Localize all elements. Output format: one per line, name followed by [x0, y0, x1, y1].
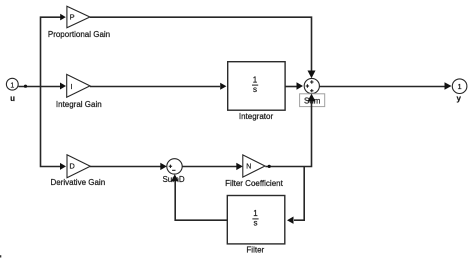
wire branch down to Filter input — [287, 167, 304, 224]
input port 1 (u) — [6, 78, 18, 90]
wire Integrator output to Sum left input — [285, 82, 303, 89]
wire branch up to Proportional Gain — [41, 14, 66, 87]
svg-text:Proportional Gain: Proportional Gain — [48, 30, 110, 39]
sum block Sum — [304, 78, 319, 93]
junction dot on u wire — [24, 85, 27, 88]
svg-text:N: N — [246, 163, 251, 170]
stray corner mark bottom-left — [0, 255, 1, 257]
svg-text:Derivative Gain: Derivative Gain — [50, 178, 105, 187]
svg-text:s: s — [253, 85, 257, 94]
gain block N (Filter Coefficient) — [243, 155, 265, 177]
wire D output to SumD left input — [90, 163, 167, 170]
wire branch down to Derivative Gain — [41, 87, 67, 170]
svg-text:Filter: Filter — [246, 245, 264, 254]
svg-text:Integral Gain: Integral Gain — [56, 100, 102, 109]
svg-text:Integrator: Integrator — [239, 112, 274, 121]
wire I output to Integrator — [90, 83, 227, 90]
wire P output to Sum top input — [90, 17, 316, 78]
svg-text:1: 1 — [10, 82, 14, 89]
wire SumD output to Filter Coefficient — [182, 163, 243, 170]
gain block P (Proportional Gain) — [67, 6, 90, 28]
junction dot at Filter Coefficient output — [268, 165, 271, 168]
svg-text:I: I — [70, 82, 72, 91]
wire Sum output to output port y — [319, 82, 451, 89]
svg-text:y: y — [456, 94, 461, 103]
integrator block (1/s) — [228, 62, 285, 110]
svg-text:Filter Coefficient: Filter Coefficient — [225, 179, 283, 188]
svg-text:s: s — [254, 219, 258, 228]
wire Filter output to SumD bottom input — [171, 174, 227, 220]
svg-text:1: 1 — [253, 75, 258, 84]
label box Sum (selected) — [300, 94, 325, 107]
filter block (1/s, mirrored) — [227, 196, 284, 244]
output port 1 (y) — [452, 79, 467, 94]
svg-text:D: D — [69, 162, 75, 171]
svg-text:1: 1 — [458, 82, 462, 91]
wire u to Integral Gain — [18, 83, 66, 90]
sum block SumD — [167, 159, 182, 174]
wire Filter Coefficient output to Sum bottom input — [265, 94, 315, 167]
gain block D (Derivative Gain) — [67, 155, 90, 178]
svg-text:u: u — [10, 94, 15, 103]
svg-text:P: P — [70, 13, 75, 22]
gain block I (Integral Gain) — [67, 74, 90, 97]
svg-text:1: 1 — [253, 209, 258, 218]
